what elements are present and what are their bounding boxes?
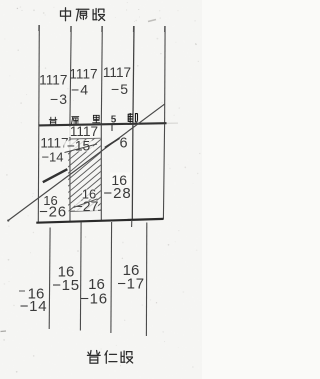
stub of 1117 under band in right column (111, 124, 113, 132)
thick dash (43, 169, 68, 182)
wire M2 (69, 125, 71, 221)
box line under 1117 label (70, 137, 101, 140)
band road line (39, 123, 167, 125)
scan speckle noise (3, 2, 200, 373)
svg-text:−14: −14 (20, 298, 48, 315)
stray mark (148, 20, 156, 22)
svg-text:6: 6 (119, 136, 127, 152)
title 普仁段 (bottom) (87, 351, 132, 364)
svg-text:1117: 1117 (103, 65, 131, 80)
middle section bottom road line (36, 219, 163, 223)
wire B1 (48, 228, 51, 330)
left edge small mark (1, 330, 7, 333)
wire V3 (101, 26, 102, 125)
仁 (105, 351, 117, 363)
svg-text:−16: −16 (80, 291, 108, 308)
svg-text:−28: −28 (103, 185, 131, 202)
neighbourhood band text (blurry small kanji) (49, 113, 138, 125)
段 (93, 9, 105, 21)
darker tick tops of section lines (39, 25, 165, 32)
bottom line of hatched parcel (70, 210, 101, 211)
stub (131, 220, 133, 227)
middle section labels (39, 124, 132, 221)
title 中原段 (top) (61, 8, 105, 21)
原 (76, 9, 89, 21)
svg-text:1117: 1117 (39, 73, 67, 88)
svg-text:1117: 1117 (70, 124, 98, 139)
wire M1 (37, 125, 40, 222)
bottom section vertical lines (49, 220, 147, 336)
wire V4 (133, 26, 134, 124)
svg-text:−26: −26 (39, 204, 67, 221)
wire B2 (79, 223, 82, 331)
small dash left margin (19, 290, 25, 292)
wire B4 (145, 223, 147, 337)
svg-text:−17: −17 (117, 276, 145, 293)
svg-text:−5: −5 (111, 81, 129, 97)
段 (121, 351, 133, 363)
wire V2 (70, 26, 71, 125)
dash of -6 (105, 138, 120, 147)
wire M5 (163, 124, 164, 220)
top section parcel numbers (39, 65, 131, 107)
middle section vertical lines (38, 124, 164, 223)
long diagonal road (8, 104, 164, 220)
svg-text:−14: −14 (41, 150, 63, 165)
wire M4 (131, 124, 134, 220)
bottom section labels (20, 262, 145, 315)
wire M3 (100, 125, 102, 221)
svg-text:−15: −15 (52, 277, 80, 294)
wire B3 (110, 222, 113, 333)
svg-text:−3: −3 (50, 91, 68, 107)
top section vertical lines (39, 25, 165, 125)
中 (61, 8, 71, 21)
wire V1 (38, 25, 41, 125)
svg-text:−4: −4 (71, 82, 89, 98)
普 (87, 351, 100, 364)
wire V5 (164, 26, 167, 124)
svg-text:1117: 1117 (69, 67, 97, 82)
